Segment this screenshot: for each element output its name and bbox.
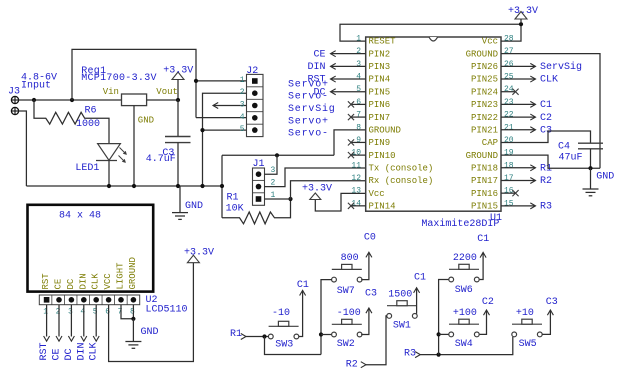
label +100: [453, 308, 477, 319]
wire SW4 to C2 riser: [480, 310, 490, 334]
label +10: [516, 308, 534, 319]
svg-text:Vin: Vin: [103, 87, 119, 97]
label C1 (SW3): [297, 280, 309, 291]
junction J2 pin1 node: [194, 79, 198, 83]
wire ground rail bottom: [26, 185, 222, 187]
ground (U2): [125, 319, 141, 349]
svg-text:GND: GND: [138, 116, 154, 126]
svg-text:4.7uF: 4.7uF: [146, 154, 176, 165]
svg-text:R1: R1: [227, 193, 239, 204]
label 84 x 48: [59, 211, 101, 222]
wire ServSig into J2 pin3: [213, 103, 247, 109]
svg-text:CE: CE: [313, 49, 325, 60]
capacitor C4: [578, 143, 603, 168]
svg-text:J2: J2: [246, 66, 258, 77]
svg-text:CE: CE: [52, 348, 63, 360]
svg-text:17: 17: [504, 174, 514, 183]
wire servo V+ rail: [72, 49, 196, 117]
svg-text:6: 6: [105, 308, 110, 317]
svg-text:PIN5: PIN5: [369, 87, 391, 97]
label CLK (U1 pin25): [540, 75, 558, 86]
svg-text:PIN6: PIN6: [369, 100, 391, 110]
label R2 (U1 pin17): [540, 176, 552, 187]
wire U1 pin27 GROUND right column: [501, 54, 600, 169]
svg-text:-10: -10: [272, 308, 290, 319]
label RST (U2): [39, 342, 50, 360]
label R3 (U1 pin15): [540, 202, 552, 213]
svg-text:DC: DC: [313, 87, 325, 98]
svg-text:LCD5110: LCD5110: [146, 305, 188, 316]
wire R1 net down to SW2 SW7 riser: [265, 337, 322, 355]
label C1 (SW1): [414, 273, 426, 284]
svg-text:84 x 48: 84 x 48: [59, 211, 101, 222]
wire DC into U1 pin5: [331, 89, 366, 95]
wire U2 CLK signal: [93, 305, 99, 342]
label +3.3V (top rail): [508, 6, 538, 17]
junction ground branch on rail: [220, 184, 224, 188]
svg-text:SW6: SW6: [455, 285, 473, 296]
label Vout: [156, 87, 178, 97]
label 800: [341, 253, 359, 264]
label 4.8-6V Input: [21, 73, 57, 92]
svg-text:PIN21: PIN21: [471, 125, 498, 135]
switch SW6: [449, 264, 479, 282]
wire net C3 from U1 pin21: [501, 127, 536, 133]
svg-text:12: 12: [351, 174, 361, 183]
IC U1 Maximite28DIP body with notch: [366, 37, 501, 211]
power +3.3V (top rail): [515, 12, 527, 23]
label GND (C4): [596, 172, 614, 183]
label C3 (SW2): [365, 289, 377, 300]
wire +V to J2 pin1: [196, 80, 247, 82]
label J2: [246, 66, 258, 77]
junction R3 net node: [437, 353, 441, 357]
wire net R1 from U1 pin18: [501, 165, 536, 171]
svg-text:Servo-: Servo-: [288, 129, 329, 140]
junction J2 ground riser on rail: [200, 184, 204, 188]
wire Reg1 Vout: [147, 99, 178, 101]
U1 left pin names: [369, 37, 434, 212]
label DC (U2): [64, 348, 75, 360]
svg-text:2: 2: [56, 308, 61, 317]
wire chip pin13 Vcc supply: [315, 193, 365, 211]
svg-text:Vcc: Vcc: [482, 37, 498, 47]
svg-text:CE: CE: [54, 279, 64, 290]
junction U2 ground node: [131, 317, 135, 321]
switch SW4: [449, 319, 479, 337]
svg-text:+3.3V: +3.3V: [508, 6, 538, 17]
svg-text:R2: R2: [540, 176, 552, 187]
junction +3.3V top rail: [519, 22, 523, 26]
junction J1 pin3 ground node: [275, 153, 279, 157]
svg-text:R3: R3: [540, 202, 552, 213]
wire SW5 to C3 riser: [542, 310, 553, 334]
junction Vout node: [176, 98, 180, 102]
svg-text:LIGHT: LIGHT: [116, 262, 126, 290]
connector J1 (console header): [253, 168, 265, 205]
label U1: [490, 213, 502, 224]
wire Rx console (chip pin12 to J1 pin1): [265, 181, 366, 199]
junction node V+ A: [32, 98, 36, 102]
svg-text:C0: C0: [364, 233, 376, 244]
J1 pin numbers 3-2-1: [271, 166, 276, 200]
power +3.3V (Vcc pin13): [310, 193, 321, 200]
svg-text:GND: GND: [596, 172, 614, 183]
svg-text:5: 5: [240, 125, 245, 134]
wire U1 pin20 CAP to C4: [501, 131, 591, 143]
wire CLK from U1 pin25: [501, 76, 536, 82]
wire RESET pin1 to +3.3V rail: [340, 24, 521, 41]
svg-text:Vcc: Vcc: [369, 189, 385, 199]
label Maximite28DIP: [421, 218, 499, 230]
junction J2 pin5 node: [200, 128, 204, 132]
wire CE into U1 pin2: [331, 51, 366, 57]
svg-text:C4: C4: [558, 142, 570, 153]
svg-text:VCC: VCC: [103, 273, 113, 290]
svg-text:Maximite28DIP: Maximite28DIP: [421, 218, 499, 230]
switch SW3: [268, 321, 298, 339]
svg-text:PIN10: PIN10: [369, 151, 396, 161]
wire U2 DC signal: [68, 305, 74, 342]
label DIN (U2): [76, 342, 87, 360]
resistor R1: [222, 199, 291, 224]
svg-text:SW2: SW2: [337, 339, 355, 350]
junction SW2 left node: [319, 332, 323, 336]
capacitor C3: [165, 100, 191, 186]
svg-text:ServSig: ServSig: [288, 103, 336, 115]
svg-text:PIN15: PIN15: [471, 202, 498, 212]
svg-text:PIN16: PIN16: [471, 189, 498, 199]
label DIN: [307, 62, 325, 73]
ground (main rail): [172, 186, 188, 219]
wire J3 pin2 to ground rail: [19, 111, 27, 186]
label R1 net arrow: [230, 329, 246, 340]
svg-text:DIN: DIN: [78, 273, 88, 289]
U1 right pin numbers: [504, 35, 514, 209]
svg-text:J3: J3: [8, 87, 20, 98]
svg-text:26: 26: [504, 60, 514, 69]
label C0: [364, 233, 376, 244]
svg-text:C2: C2: [540, 113, 552, 124]
svg-text:C1: C1: [414, 273, 426, 284]
junction node V+ B: [70, 98, 74, 102]
wire U2 CE signal: [56, 305, 62, 342]
svg-text:6: 6: [356, 98, 361, 107]
wire U2 RST signal: [44, 305, 50, 342]
LED LED1: [96, 144, 127, 186]
resistor R6: [34, 100, 109, 143]
U2 pin names RST CE DC DIN CLK VCC LIGHT GROUND: [41, 257, 138, 289]
label SW1: [393, 321, 411, 332]
svg-text:PIN25: PIN25: [471, 75, 498, 85]
wire net R3 from U1 pin15: [501, 203, 536, 209]
svg-text:RST: RST: [307, 75, 325, 86]
wire riser to SW7 left: [321, 280, 332, 355]
J2 pin numbers 1-5: [240, 76, 245, 134]
svg-text:PIN24: PIN24: [471, 87, 498, 97]
wire J1 pin3 to ground: [265, 155, 278, 174]
junction R1 net node: [262, 334, 266, 338]
label 1500: [388, 290, 412, 301]
svg-text:1500: 1500: [388, 290, 412, 301]
U1 no-connect pins 6 7 9 10 14: [348, 101, 366, 209]
U1 right pin names: [466, 37, 498, 212]
svg-text:2: 2: [240, 88, 245, 97]
svg-text:PIN18: PIN18: [471, 164, 498, 174]
svg-text:C3: C3: [546, 297, 558, 308]
svg-text:DC: DC: [66, 278, 76, 289]
label C3 (SW5): [546, 297, 558, 308]
ground (C4): [583, 168, 599, 196]
svg-text:Tx (console): Tx (console): [369, 164, 434, 174]
wire SW2 to C3 riser: [361, 308, 372, 335]
svg-text:2: 2: [356, 47, 361, 56]
svg-text:8: 8: [356, 123, 361, 132]
svg-text:SW1: SW1: [393, 321, 411, 332]
svg-text:GROUND: GROUND: [466, 151, 498, 161]
svg-text:1: 1: [356, 35, 361, 44]
label CE: [313, 49, 325, 60]
wire U2 GROUND pin: [132, 305, 134, 320]
label R1 10K: [226, 193, 244, 215]
label DC: [313, 87, 325, 98]
svg-text:R2: R2: [346, 359, 358, 370]
power +3.3V (regulator output): [172, 72, 184, 98]
svg-text:3: 3: [240, 101, 245, 110]
wire ServSig from U1 pin26: [501, 63, 536, 69]
svg-text:-100: -100: [337, 308, 361, 319]
svg-text:R1: R1: [540, 164, 552, 175]
svg-text:3: 3: [356, 60, 361, 69]
svg-text:CLK: CLK: [91, 273, 101, 290]
svg-text:28: 28: [504, 35, 514, 44]
wire R3 net: [420, 337, 513, 355]
svg-text:24: 24: [504, 85, 514, 94]
label R1 (U1 pin18): [540, 164, 552, 175]
wire Reg1 GND to ground rail: [133, 106, 135, 186]
svg-text:CLK: CLK: [540, 75, 558, 86]
label CE (U2): [52, 348, 63, 360]
svg-text:PIN22: PIN22: [471, 113, 498, 123]
svg-text:GROUND: GROUND: [466, 49, 498, 59]
label C3 (U1 pin21): [540, 125, 552, 136]
U1 left pin numbers: [351, 35, 361, 209]
svg-text:PIN26: PIN26: [471, 62, 498, 72]
U1 no-connect pins 24 16: [501, 89, 519, 197]
power +3.3V (U2 VCC): [187, 255, 199, 263]
svg-text:+3.3V: +3.3V: [302, 184, 332, 195]
svg-text:+10: +10: [516, 308, 534, 319]
svg-text:18: 18: [504, 161, 514, 170]
svg-text:C3: C3: [365, 289, 377, 300]
svg-text:2200: 2200: [453, 253, 477, 264]
svg-text:15: 15: [504, 199, 514, 208]
label Reg1 MCP1700-3.3V: [81, 66, 157, 84]
svg-text:R1: R1: [230, 329, 242, 340]
svg-text:800: 800: [341, 253, 359, 264]
wire SW3 to C1 riser: [299, 290, 306, 336]
svg-text:GROUND: GROUND: [128, 257, 138, 289]
svg-text:9: 9: [356, 136, 361, 145]
label J1: [253, 159, 265, 170]
svg-text:Vout: Vout: [156, 87, 178, 97]
svg-text:Servo+: Servo+: [288, 116, 329, 127]
wire SW2 left stub: [321, 334, 332, 336]
junction C4 ground node: [588, 166, 592, 170]
svg-text:SW7: SW7: [337, 286, 355, 297]
svg-text:CAP: CAP: [482, 138, 498, 148]
junction R1 to Rx node: [288, 197, 292, 201]
wire DIN into U1 pin3: [331, 63, 366, 69]
svg-text:16: 16: [504, 187, 514, 196]
label C2 (SW4): [482, 297, 494, 308]
wire ground branch line: [222, 155, 334, 218]
wire SW6 to C1 riser: [480, 252, 487, 279]
LCD display U2 body: [28, 205, 154, 292]
wire chip pin8 GROUND: [334, 130, 366, 155]
label GND (U2): [141, 327, 159, 338]
svg-text:4: 4: [356, 73, 361, 82]
wire R3 riser to SW6 SW4: [439, 280, 449, 355]
svg-text:R6: R6: [85, 106, 97, 117]
svg-text:J1: J1: [253, 159, 265, 170]
svg-text:11: 11: [351, 161, 361, 170]
svg-text:PIN3: PIN3: [369, 62, 391, 72]
label C2 (U1 pin22): [540, 113, 552, 124]
label SW4: [455, 339, 473, 350]
svg-text:7: 7: [356, 111, 361, 120]
junction SW4 left node: [437, 332, 441, 336]
svg-text:47uF: 47uF: [559, 153, 583, 164]
svg-text:SW3: SW3: [275, 340, 293, 351]
wire U1 pin19 GROUND: [501, 155, 600, 168]
label 2200: [453, 253, 477, 264]
wire U2 VCC to +3.3V: [109, 262, 194, 361]
svg-text:22: 22: [504, 111, 514, 120]
label J3: [8, 87, 20, 98]
svg-text:1: 1: [240, 76, 245, 85]
svg-text:CLK: CLK: [89, 342, 100, 360]
svg-text:Rx (console): Rx (console): [369, 176, 434, 186]
wire SW4 left stub: [439, 333, 449, 335]
svg-text:C2: C2: [482, 297, 494, 308]
labels Servo+ Servo- ServSig Servo+ Servo-: [288, 79, 336, 139]
svg-text:DIN: DIN: [307, 62, 325, 73]
switch SW5: [512, 319, 542, 337]
svg-text:PIN14: PIN14: [369, 202, 396, 212]
switch SW7: [332, 264, 362, 282]
svg-text:1: 1: [43, 308, 48, 317]
svg-text:23: 23: [504, 98, 514, 107]
svg-text:RST: RST: [41, 273, 51, 290]
svg-text:C1: C1: [477, 234, 489, 245]
U2 pad numbers 1-8: [43, 308, 135, 317]
label SW2: [337, 339, 355, 350]
label C1 (SW6): [477, 234, 489, 245]
svg-text:7: 7: [118, 308, 123, 317]
svg-text:20: 20: [504, 136, 514, 145]
wire RST into U1 pin4: [331, 76, 366, 82]
svg-text:1000: 1000: [76, 119, 100, 130]
svg-text:GND: GND: [185, 201, 203, 212]
svg-text:13: 13: [351, 187, 361, 196]
svg-text:RESET: RESET: [369, 37, 397, 47]
svg-text:4: 4: [240, 113, 245, 122]
svg-text:SW4: SW4: [455, 339, 473, 350]
svg-text:C1: C1: [540, 100, 552, 111]
svg-text:+3.3V: +3.3V: [184, 248, 214, 259]
svg-text:+3.3V: +3.3V: [163, 66, 193, 77]
label -100: [337, 308, 361, 319]
svg-text:PIN23: PIN23: [471, 100, 498, 110]
svg-text:5: 5: [93, 308, 98, 317]
connector J2 (servo header): [247, 74, 264, 136]
wire Tx console (chip pin11 to J1 pin2): [265, 168, 366, 187]
svg-text:5: 5: [356, 85, 361, 94]
wire net C1 from U1 pin23: [501, 101, 536, 107]
switch SW2: [332, 319, 362, 337]
junction LED1 cathode on ground rail: [107, 184, 111, 188]
wire U2 LIGHT to ground: [121, 305, 133, 319]
svg-text:PIN9: PIN9: [369, 138, 391, 148]
regulator Reg1 body: [122, 94, 147, 106]
wire J3 pin1 to regulator Vin: [19, 99, 122, 101]
wire +V to J2 pin4: [196, 117, 247, 119]
svg-text:PIN17: PIN17: [471, 176, 498, 186]
wire U2 DIN signal: [81, 305, 87, 342]
wire SW7 to C0 riser: [361, 252, 372, 279]
svg-text:19: 19: [504, 149, 514, 158]
label +3.3V (regulator output): [163, 66, 193, 77]
switch SW1: [387, 301, 417, 319]
svg-text:+100: +100: [453, 308, 477, 319]
junction Reg1 GND on ground rail: [132, 184, 136, 188]
label RST: [307, 75, 325, 86]
svg-text:10K: 10K: [226, 204, 244, 215]
svg-text:R3: R3: [404, 349, 416, 360]
label SW7: [337, 286, 355, 297]
svg-text:RST: RST: [39, 342, 50, 360]
wire Vcc pin28 riser: [501, 24, 521, 41]
svg-text:21: 21: [504, 123, 514, 132]
label C4 47uF: [558, 142, 583, 164]
label R2 net arrow: [346, 359, 366, 370]
svg-text:SW5: SW5: [519, 339, 537, 350]
svg-text:8: 8: [130, 308, 135, 317]
wire net C2 from U1 pin22: [501, 114, 536, 120]
label C3 4.7uF: [146, 148, 176, 165]
label SW5: [519, 339, 537, 350]
label GND (main rail): [185, 201, 203, 212]
label SW6: [455, 285, 473, 296]
label ServSig (U1 pin26): [540, 61, 582, 73]
svg-text:GROUND: GROUND: [369, 125, 401, 135]
label U2: [146, 295, 158, 306]
svg-text:DC: DC: [64, 348, 75, 360]
label LED1: [75, 163, 99, 174]
label -10: [272, 308, 290, 319]
wire R2 net to SW1: [366, 316, 387, 365]
connector J3 (power input): [11, 96, 18, 114]
svg-text:MCP1700-3.3V: MCP1700-3.3V: [81, 73, 157, 84]
label Vin: [103, 87, 119, 97]
svg-text:3: 3: [68, 308, 73, 317]
svg-text:25: 25: [504, 73, 514, 82]
label +3.3V (Vcc pin13): [302, 184, 332, 195]
svg-text:4: 4: [80, 308, 85, 317]
svg-text:PIN2: PIN2: [369, 49, 391, 59]
label LCD5110: [146, 305, 188, 316]
